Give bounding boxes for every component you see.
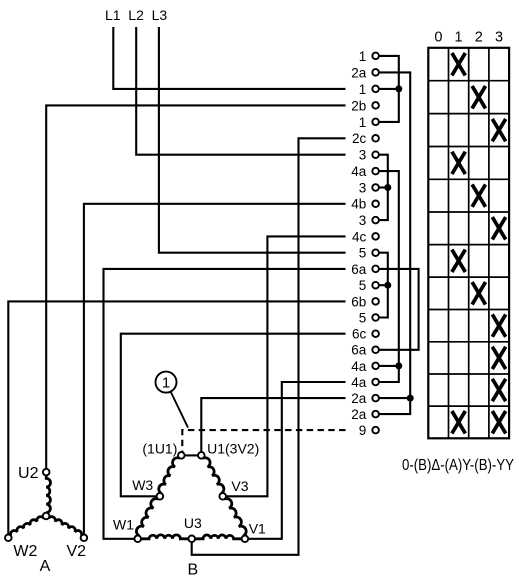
bus contacts 2a bbox=[379, 72, 410, 414]
svg-text:L3: L3 bbox=[152, 7, 168, 23]
contact 5 row15 bbox=[372, 282, 379, 289]
contact 2a row22 bbox=[372, 395, 379, 402]
svg-text:2b: 2b bbox=[351, 98, 366, 113]
svg-text:1: 1 bbox=[359, 115, 367, 130]
node star point A bbox=[43, 513, 50, 520]
svg-text:0-(B)Δ-(A)Y-(B)-YY: 0-(B)Δ-(A)Y-(B)-YY bbox=[402, 457, 514, 474]
svg-text:V2: V2 bbox=[67, 543, 87, 560]
node W2 bbox=[5, 535, 12, 542]
winding B coil W1-W3 bbox=[136, 499, 158, 536]
svg-text:5: 5 bbox=[359, 310, 367, 325]
svg-text:L2: L2 bbox=[128, 7, 144, 23]
stub contact 2a row22 bbox=[379, 397, 410, 399]
contact 4a row20 bbox=[372, 363, 379, 370]
svg-text:W2: W2 bbox=[13, 543, 37, 560]
svg-text:2a: 2a bbox=[351, 65, 367, 80]
wire L3 to contact 5 bbox=[159, 27, 346, 253]
svg-text:2a: 2a bbox=[351, 407, 367, 422]
table X row12 pos3 bbox=[492, 411, 505, 433]
wire contact 2c to U3 bbox=[192, 138, 346, 555]
table X row6 pos3 bbox=[492, 217, 505, 239]
winding A coil center-V2 bbox=[49, 517, 82, 536]
table grid bbox=[428, 48, 509, 439]
table X row11 pos3 bbox=[492, 379, 505, 401]
wire L2 to contact 3 bbox=[136, 27, 345, 155]
svg-text:5: 5 bbox=[359, 246, 367, 261]
wire contact 6a to W1 bbox=[104, 269, 346, 539]
winding B coil W3-(1U1) bbox=[159, 458, 180, 494]
svg-text:6a: 6a bbox=[351, 343, 367, 358]
node (1U1) bbox=[178, 452, 185, 459]
winding B coil V3-V1 bbox=[224, 499, 246, 536]
svg-text:L1: L1 bbox=[105, 7, 121, 23]
svg-text:(1U1): (1U1) bbox=[142, 441, 177, 457]
node V3 bbox=[219, 493, 226, 500]
contact 4a row8 bbox=[372, 168, 379, 175]
svg-text:B: B bbox=[187, 562, 198, 579]
bus contacts 1-1-1 bbox=[379, 56, 399, 122]
svg-text:2c: 2c bbox=[352, 131, 367, 146]
contact 9 row24 bbox=[372, 427, 379, 434]
junction 5-bus bbox=[384, 282, 391, 289]
stub contact 5 row15 bbox=[379, 284, 388, 286]
winding B coil W1-U3 bbox=[141, 535, 188, 539]
node U3 bbox=[188, 536, 195, 543]
bus contacts 4a bbox=[379, 171, 399, 382]
node W1 bbox=[134, 536, 141, 543]
contact 4a row21 bbox=[372, 379, 379, 386]
svg-text:4b: 4b bbox=[351, 197, 366, 212]
svg-text:2: 2 bbox=[475, 30, 483, 46]
table X row9 pos3 bbox=[492, 314, 505, 336]
svg-text:1: 1 bbox=[359, 82, 367, 97]
contact 2b row4 bbox=[372, 102, 379, 109]
bus contacts 5-5-5 bbox=[379, 253, 388, 318]
svg-text:V1: V1 bbox=[249, 521, 266, 537]
winding B coil U3-V1 bbox=[195, 535, 242, 539]
stub contact 4a row20 bbox=[379, 365, 399, 367]
junction 4a-bus bbox=[395, 362, 402, 369]
table X row8 pos2 bbox=[472, 282, 485, 304]
contact 1 row3 bbox=[372, 86, 379, 93]
svg-text:9: 9 bbox=[359, 423, 367, 438]
contact 3 row9 bbox=[372, 184, 379, 191]
stub contact 1 row3 bbox=[379, 88, 399, 90]
svg-text:4a: 4a bbox=[351, 164, 367, 179]
wire contact 4a to V1 bbox=[248, 382, 345, 539]
svg-text:W3: W3 bbox=[132, 477, 153, 493]
contact 3 row11 bbox=[372, 217, 379, 224]
contact 4c row12 bbox=[372, 233, 379, 240]
svg-text:3: 3 bbox=[359, 213, 367, 228]
contact 3 row7 bbox=[372, 151, 379, 158]
node V2 bbox=[81, 535, 88, 542]
winding A coil center-W2 bbox=[11, 517, 44, 536]
wire contact 2b to U2 bbox=[46, 105, 345, 468]
contact 6b row16 bbox=[372, 298, 379, 305]
apex link (1U1)-U1 bbox=[185, 454, 198, 456]
svg-text:0: 0 bbox=[434, 30, 442, 46]
bus contacts 3-3-3 bbox=[379, 155, 388, 220]
svg-text:5: 5 bbox=[359, 278, 367, 293]
stub contact 3 row9 bbox=[379, 186, 388, 188]
svg-text:3: 3 bbox=[359, 180, 367, 195]
node U2 bbox=[43, 469, 50, 476]
contact 2c row6 bbox=[372, 135, 379, 142]
svg-text:U3: U3 bbox=[184, 515, 202, 531]
dashed link contact 9 to (1U1) bbox=[182, 430, 345, 452]
contact 1 row1 bbox=[372, 53, 379, 60]
junction 3-bus bbox=[384, 184, 391, 191]
svg-text:3: 3 bbox=[359, 148, 367, 163]
table X row1 pos1 bbox=[452, 53, 465, 75]
svg-text:U2: U2 bbox=[18, 465, 39, 482]
table X row7 pos1 bbox=[452, 250, 465, 272]
svg-text:U1(3V2): U1(3V2) bbox=[207, 441, 259, 457]
wire contact 6b to W2 bbox=[8, 301, 345, 534]
svg-text:W1: W1 bbox=[113, 516, 134, 532]
svg-text:V3: V3 bbox=[231, 478, 248, 494]
node U1(3V2) bbox=[198, 452, 205, 459]
loop contacts 6a-6a bbox=[379, 269, 419, 350]
svg-text:3: 3 bbox=[495, 30, 503, 46]
contact 4b row10 bbox=[372, 201, 379, 208]
table X row10 pos3 bbox=[492, 347, 505, 369]
svg-text:4a: 4a bbox=[351, 375, 367, 390]
contact 5 row17 bbox=[372, 314, 379, 321]
callout pointer bbox=[171, 392, 188, 428]
table X row3 pos3 bbox=[492, 119, 505, 141]
wire contact 2a to U1 bbox=[201, 398, 345, 452]
callout circle 1 bbox=[156, 372, 177, 393]
svg-text:1: 1 bbox=[455, 30, 463, 46]
contact 2a row2 bbox=[372, 69, 379, 76]
table X row4 pos1 bbox=[452, 152, 465, 174]
wire L1 to contact 1 bbox=[113, 27, 345, 89]
svg-text:6b: 6b bbox=[351, 294, 366, 309]
contact 6a row14 bbox=[372, 266, 379, 273]
node W3 bbox=[157, 493, 164, 500]
wire contact 6c to W3 bbox=[121, 334, 346, 497]
junction 1-bus bbox=[395, 85, 402, 92]
svg-text:1: 1 bbox=[162, 374, 170, 391]
contact 2a row23 bbox=[372, 411, 379, 418]
table X row12 pos1 bbox=[452, 411, 465, 433]
svg-text:6c: 6c bbox=[352, 327, 367, 342]
svg-text:2a: 2a bbox=[351, 391, 367, 406]
wire contact 4b to V2 bbox=[84, 204, 346, 535]
node V1 bbox=[242, 536, 249, 543]
svg-text:6a: 6a bbox=[351, 262, 367, 277]
contact 5 row13 bbox=[372, 249, 379, 256]
wire contact 4c to V3 bbox=[226, 236, 345, 496]
contact 6c row18 bbox=[372, 330, 379, 337]
svg-text:4a: 4a bbox=[351, 359, 367, 374]
contact 1 row5 bbox=[372, 119, 379, 126]
svg-text:A: A bbox=[40, 558, 51, 575]
junction 2a-bus bbox=[407, 395, 414, 402]
contact 6a row19 bbox=[372, 347, 379, 354]
table X row5 pos2 bbox=[472, 184, 485, 206]
table X row2 pos2 bbox=[472, 86, 485, 108]
svg-text:4c: 4c bbox=[352, 229, 367, 244]
svg-text:1: 1 bbox=[359, 49, 367, 64]
winding B coil U1-V3 bbox=[203, 458, 224, 494]
winding A coil U2-center bbox=[46, 475, 50, 512]
